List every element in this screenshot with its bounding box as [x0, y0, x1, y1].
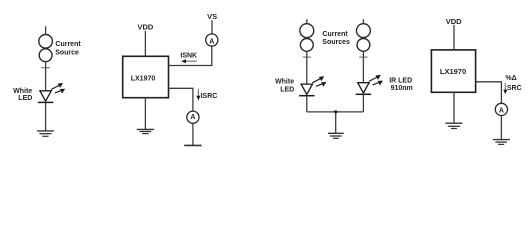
svg-text:A: A: [499, 108, 504, 115]
svg-text:SRC: SRC: [507, 85, 522, 92]
svg-text:ISNK: ISNK: [180, 53, 197, 60]
svg-text:VDD: VDD: [446, 17, 462, 26]
svg-text:ISRC: ISRC: [201, 93, 218, 100]
svg-text:A: A: [190, 114, 195, 121]
svg-text:Current: Current: [55, 41, 81, 48]
svg-text:LED: LED: [18, 95, 32, 102]
svg-text:LX1970: LX1970: [440, 67, 466, 76]
svg-text:LED: LED: [280, 87, 294, 94]
svg-text:A: A: [209, 38, 214, 45]
svg-text:VS: VS: [207, 12, 217, 21]
svg-text:White: White: [275, 79, 294, 86]
svg-text:Source: Source: [55, 50, 79, 57]
svg-text:Current: Current: [322, 31, 348, 38]
svg-text:910nm: 910nm: [391, 85, 413, 92]
svg-text:LX1970: LX1970: [131, 75, 156, 82]
svg-text:White: White: [13, 88, 32, 95]
svg-text:VDD: VDD: [137, 23, 153, 32]
svg-text:Sources: Sources: [322, 39, 350, 46]
svg-text:%Δ: %Δ: [505, 75, 516, 82]
svg-text:IR LED: IR LED: [389, 77, 412, 84]
